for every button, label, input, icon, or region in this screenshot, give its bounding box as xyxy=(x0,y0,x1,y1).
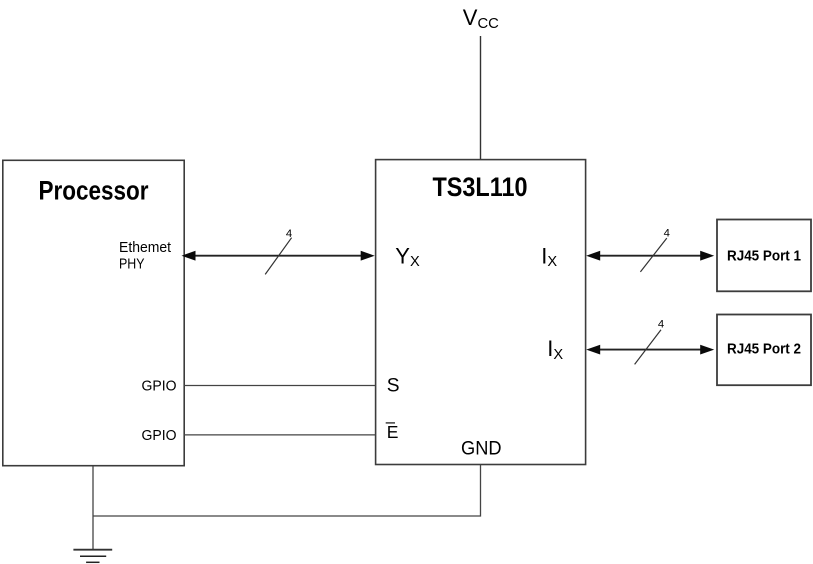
bus Ix to RJ45 Port 2 xyxy=(586,345,714,355)
svg-text:4: 4 xyxy=(658,318,664,330)
block RJ45 Port 1 xyxy=(717,220,811,292)
ground symbol xyxy=(73,550,112,563)
wire TS3L110 GND down and left to ground node xyxy=(93,465,481,517)
block RJ45 Port 2 xyxy=(717,315,811,386)
svg-text:GPIO: GPIO xyxy=(142,378,177,395)
power net VCC label xyxy=(463,5,499,32)
block TS3L110 xyxy=(376,160,586,465)
svg-text:PHY: PHY xyxy=(119,256,145,273)
svg-text:GPIO: GPIO xyxy=(142,427,177,444)
wire VCC to TS3L110 top xyxy=(480,36,482,160)
svg-text:4: 4 xyxy=(286,228,292,240)
wire GPIO to E-bar xyxy=(184,434,376,436)
wire Processor bottom to ground xyxy=(92,466,94,550)
bus Ethemet PHY to Yx xyxy=(182,251,375,261)
bus width slash (left) xyxy=(265,238,291,275)
pin label E-bar xyxy=(386,422,399,442)
svg-text:S: S xyxy=(387,375,400,396)
svg-text:4: 4 xyxy=(664,227,670,239)
svg-text:Processor: Processor xyxy=(39,176,149,206)
wire GPIO to S xyxy=(184,385,376,387)
bus width slash (right 1) xyxy=(640,238,666,272)
svg-text:RJ45 Port 2: RJ45 Port 2 xyxy=(727,341,801,358)
svg-text:E: E xyxy=(387,422,399,442)
svg-text:Ethemet: Ethemet xyxy=(119,239,172,256)
svg-text:GND: GND xyxy=(461,439,502,460)
pin label Ethemet PHY xyxy=(119,239,172,273)
bus Ix to RJ45 Port 1 xyxy=(586,251,714,261)
svg-text:RJ45 Port 1: RJ45 Port 1 xyxy=(727,247,801,264)
svg-text:TS3L110: TS3L110 xyxy=(433,172,528,202)
bus width slash (right 2) xyxy=(635,330,661,365)
block Processor xyxy=(3,160,184,465)
